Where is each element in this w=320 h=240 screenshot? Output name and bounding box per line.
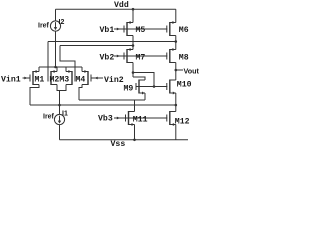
wire I1 to Vss [59,125,61,140]
svg-text:M1: M1 [35,76,45,85]
wire Vout stub [176,69,183,71]
wire M4 source riser [81,67,83,72]
svg-text:M4: M4 [76,76,86,85]
wire folding line A [79,99,145,101]
wire M9 M10 gate line [136,86,167,88]
node mirror gate junction [153,85,156,88]
node tail I2 junction [54,66,57,69]
svg-text:M9: M9 [124,85,134,94]
transistor M9 [136,80,145,95]
wire Vin1 lead [23,77,31,79]
svg-text:M11: M11 [133,115,148,124]
wire M5 drain to M7 source [132,36,134,50]
wire M7 drain to M9 drain jog [133,77,145,80]
wire M1 drain jog [30,85,39,106]
Vss rail [60,139,189,141]
svg-text:Vb3: Vb3 [98,113,113,123]
svg-text:M5: M5 [136,26,146,35]
node I1 junction [58,104,61,107]
wire I2 to tail node [55,31,57,67]
wire M11 source drop [134,125,136,140]
wire M5 source riser [132,9,134,22]
wire tail line [39,66,82,68]
svg-text:I2: I2 [59,19,65,26]
svg-text:Vb1: Vb1 [100,25,115,35]
current source I1 [54,114,64,124]
wire M3 source riser [65,67,67,72]
svg-text:M2M3: M2M3 [50,76,70,85]
wire folding line B [30,104,176,106]
svg-text:Vb2: Vb2 [100,52,115,62]
svg-text:I1: I1 [62,111,68,118]
wire M2 M3 drain merge [57,85,66,91]
wire M4 drain jog [79,85,82,101]
transistor M11 [126,111,135,126]
svg-text:M8: M8 [179,53,189,62]
wire Vb3 bias line [114,117,167,119]
wire merge drop to line B [59,91,61,106]
wire lower bias line M3 gate to M5/M7 node [60,45,133,47]
wire M10 source to M12 drain [175,93,177,112]
wire M7 drain riser [132,63,134,78]
transistor M2 [48,70,57,85]
svg-text:Vdd: Vdd [114,0,129,10]
node A junction [132,71,135,74]
wire M12 source drop [175,125,177,140]
transistor M12 [167,111,176,126]
node M6 drain junction [175,40,178,43]
wire M2 gate riser [47,42,49,75]
svg-text:M6: M6 [179,26,189,35]
arrow Vin2 [95,77,98,80]
wire Vb2 bias line [114,55,167,57]
transistor M4 [82,70,91,85]
node M11 Vss junction [133,139,136,142]
wire Vb1 bias line [114,28,167,30]
node Vdd M5 junction [132,8,135,11]
transistor M5 [124,21,133,36]
node B junction [175,104,178,107]
wire node A branch to mirror gates [133,73,154,87]
wire M2 source riser [56,67,58,72]
wire line B to I1 [59,105,61,114]
arrow Vin1 [24,77,27,80]
wire upper bias line M2 gate to M6/M8 node [48,41,176,43]
wire M1 source riser [38,67,40,72]
transistor M3 [66,70,75,85]
svg-text:Vout: Vout [184,67,200,76]
svg-text:Vin2: Vin2 [104,75,124,85]
transistor M1 [30,70,39,85]
transistor M7 [124,48,133,63]
svg-text:Iref: Iref [43,114,55,121]
wire Vdd to I2 [55,9,57,21]
wire M6 drain to M8 source [175,36,177,50]
wire M8 drain riser [175,63,177,81]
wire M6 source riser [175,9,177,22]
svg-text:Vin1: Vin1 [1,75,21,85]
svg-text:Iref: Iref [38,23,50,30]
node Vout junction [175,69,178,72]
arrow Vb2 [117,55,120,58]
transistor M6 [167,21,176,36]
wire M11 drain riser [134,100,136,112]
wire M9 source drop [144,93,146,100]
current source I2 [50,21,60,31]
transistor M10 [167,80,176,95]
Vdd rail [56,8,176,10]
svg-text:M12: M12 [175,118,190,127]
arrow Vb1 [117,28,120,31]
wire Vin2 lead [91,77,103,79]
node M5 drain junction [132,44,135,47]
arrow Vb3 [117,117,120,120]
wire M3 gate staircase [60,46,75,75]
svg-text:M7: M7 [136,53,146,62]
svg-text:M10: M10 [177,80,192,89]
svg-text:Vss: Vss [111,140,126,149]
transistor M8 [167,48,176,63]
